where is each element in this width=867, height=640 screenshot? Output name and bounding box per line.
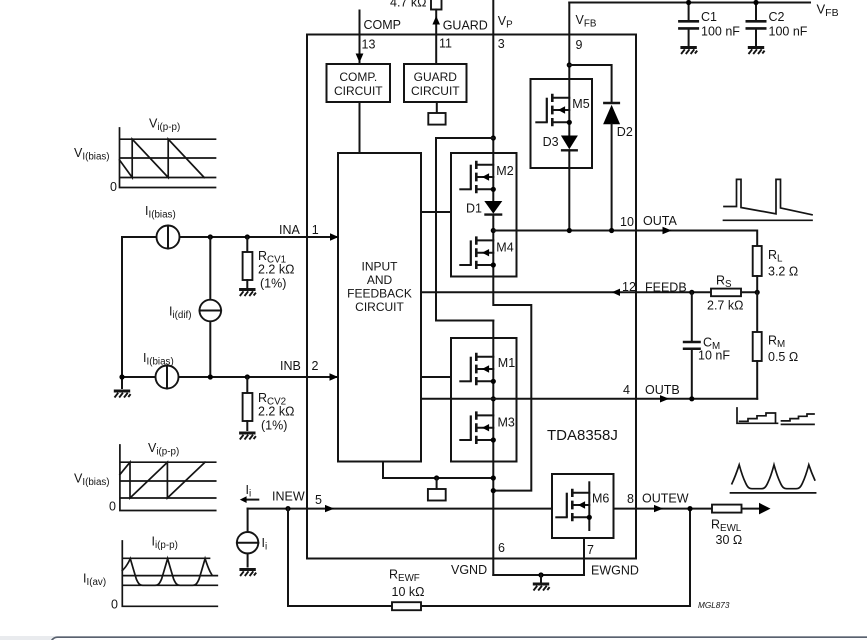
transistor M6 [556, 489, 609, 522]
resistor RS 2.7 kOhm [707, 274, 743, 313]
current source II(bias) upper [145, 204, 180, 249]
node INA junction to RCV1 [245, 234, 250, 239]
wire D1 to M4 and down to jog [493, 215, 531, 491]
svg-text:OUTEW: OUTEW [642, 492, 689, 506]
wire FEEDB row pin 12 [421, 291, 757, 293]
svg-text:0: 0 [110, 180, 117, 194]
ground below C1 [680, 48, 697, 55]
svg-text:9: 9 [576, 38, 583, 52]
svg-text:2.2 kΩ: 2.2 kΩ [258, 263, 294, 277]
wire OUTEW row pin 8 [614, 508, 760, 510]
capacitor CM 10 nF [683, 292, 731, 399]
svg-text:0.5 Ω: 0.5 Ω [768, 350, 798, 364]
ground VGND/EWGND [533, 584, 550, 591]
node junction jog return [491, 488, 496, 493]
svg-text:0: 0 [111, 598, 118, 612]
arrow up to guard resistor [432, 16, 440, 25]
node ground junction [538, 572, 543, 577]
browser UI strip bottom [0, 636, 867, 640]
wire D2 anode down to OUTA node [611, 124, 613, 230]
node Vp junction [491, 135, 496, 140]
wire M1 rail down to VGND [492, 321, 494, 576]
node D2 rail junction [609, 228, 614, 233]
svg-text:M4: M4 [496, 241, 513, 255]
block M2/D1/M4 sub-box [451, 153, 517, 277]
arrow pin 8 [654, 505, 663, 512]
waveform graph Vi falling sawtooth (INA) [74, 117, 216, 195]
resistor RL 3.2 Ohm [753, 246, 799, 292]
svg-text:12: 12 [622, 280, 636, 294]
block M5/D3 sub-box [531, 79, 593, 168]
wire INEW row pin 5 to M6 box [248, 508, 552, 510]
svg-text:MGL873: MGL873 [698, 601, 730, 610]
svg-text:10 kΩ: 10 kΩ [392, 585, 425, 599]
waveform OUTEW east-west parabola [731, 465, 816, 493]
wire pad stub [436, 478, 438, 489]
node OUTEW junction to REWF [687, 506, 692, 511]
svg-text:M6: M6 [592, 492, 609, 506]
IC outline TDA8358J [307, 35, 636, 559]
svg-text:100 nF: 100 nF [701, 25, 740, 39]
svg-text:CIRCUIT: CIRCUIT [355, 300, 404, 314]
wire INA row pin 1 [122, 236, 338, 238]
node OUTB junction on rail [491, 396, 496, 401]
wire OUTB row pin 4 [421, 398, 757, 400]
svg-text:FEEDBACK: FEEDBACK [347, 287, 412, 301]
wire Vp rail pin 3 down to M2 and D1 [492, 0, 494, 201]
current source Ii(dif) [169, 300, 221, 322]
svg-text:5: 5 [315, 493, 322, 507]
block COMP. CIRCUIT [327, 64, 391, 102]
wire COMP pin 13 vertical [359, 11, 361, 65]
block INPUT AND FEEDBACK CIRCUIT [338, 153, 421, 462]
current source Ii [237, 532, 267, 553]
node INEW junction to REWF [285, 506, 290, 511]
svg-text:2.7 kΩ: 2.7 kΩ [707, 299, 743, 313]
resistor REWL 30 Ohm [711, 505, 742, 547]
svg-text:11: 11 [439, 37, 452, 51]
capacitor C2 100 nF [746, 3, 808, 46]
svg-text:10: 10 [620, 215, 634, 229]
svg-text:3.2 Ω: 3.2 Ω [768, 265, 798, 279]
arrow pin 4 [660, 395, 669, 402]
svg-text:TDA8358J: TDA8358J [547, 427, 618, 444]
block GUARD CIRCUIT [404, 64, 467, 102]
svg-text:FEEDB: FEEDB [645, 281, 687, 295]
svg-text:1: 1 [312, 223, 319, 237]
svg-text:COMP.: COMP. [339, 70, 377, 84]
svg-text:3: 3 [498, 37, 505, 51]
capacitor C1 100 nF [678, 3, 740, 46]
wire INB row pin 2 [122, 376, 338, 378]
svg-text:M5: M5 [572, 97, 589, 111]
wire branch to D2 [569, 65, 611, 103]
wire Ii source branch [247, 509, 249, 533]
svg-text:INA: INA [279, 223, 301, 237]
waveform graph Vi rising sawtooth (INB) [74, 441, 216, 514]
svg-text:INB: INB [280, 359, 301, 373]
current arrow Ii [240, 483, 258, 503]
svg-text:OUTA: OUTA [643, 214, 677, 228]
resistor RCV1 2.2 kOhm 1% [243, 237, 295, 291]
wire pin 7 from M6 box [583, 538, 585, 575]
node Ii(dif) bottom junction [208, 374, 213, 379]
node CM top junction [689, 290, 694, 295]
transistor M4 [460, 236, 513, 269]
svg-text:C2: C2 [769, 10, 785, 24]
svg-text:D2: D2 [617, 125, 633, 139]
svg-text:100 nF: 100 nF [769, 25, 808, 39]
wire VFB top line to decoupling caps [569, 2, 810, 4]
svg-text:8: 8 [627, 492, 634, 506]
ground below Ii [239, 570, 256, 577]
wire ground stub [540, 575, 542, 582]
wire bottom node of input block [383, 462, 493, 479]
node INA junction to Ii(dif) [208, 234, 213, 239]
arrow pin 2 [330, 373, 339, 380]
diode D3 [543, 135, 578, 150]
svg-text:VGND: VGND [451, 563, 487, 577]
svg-text:AND: AND [367, 273, 393, 287]
svg-text:(1%): (1%) [261, 419, 287, 433]
svg-text:10 nF: 10 nF [698, 349, 730, 363]
svg-text:INPUT: INPUT [362, 260, 399, 274]
arrow into COMP circuit [356, 54, 364, 63]
svg-text:4.7 kΩ: 4.7 kΩ [390, 0, 426, 10]
pad symbol below guard circuit [428, 113, 445, 125]
svg-text:4: 4 [623, 383, 630, 397]
node left rail junction [119, 374, 124, 379]
transistor M1 [460, 353, 515, 386]
svg-text:EWGND: EWGND [591, 564, 639, 578]
arrow pin 10 [663, 227, 672, 235]
svg-text:0: 0 [109, 500, 116, 514]
node RCV2 junction [245, 374, 250, 379]
svg-text:13: 13 [362, 37, 376, 51]
waveform OUTA flyback pulses [724, 179, 813, 220]
svg-text:GUARD: GUARD [443, 19, 488, 33]
wire OUTA row pin 10 [493, 231, 757, 247]
arrow output to deflection coil [759, 503, 771, 515]
block M6 sub-box [552, 474, 614, 538]
svg-text:2.2 kΩ: 2.2 kΩ [258, 405, 294, 419]
arrow pin 5 [325, 505, 334, 512]
svg-text:INEW: INEW [272, 490, 305, 504]
node C1 junction [686, 0, 691, 5]
wire REWF loop [288, 509, 690, 606]
svg-text:2: 2 [312, 359, 319, 373]
resistor RCV2 2.2 kOhm 1% [243, 377, 295, 433]
svg-text:7: 7 [587, 543, 594, 557]
svg-text:CIRCUIT: CIRCUIT [334, 84, 383, 98]
svg-text:C1: C1 [701, 10, 717, 24]
node RS/RL/RM junction [755, 290, 760, 295]
current source II(bias) lower [143, 351, 179, 389]
resistor REWF 10 kOhm [389, 568, 424, 611]
node VFB/M5 junction [567, 62, 572, 67]
svg-text:CIRCUIT: CIRCUIT [411, 84, 460, 98]
svg-text:D1: D1 [466, 202, 482, 216]
node D3 rail junction [567, 228, 572, 233]
svg-text:M3: M3 [498, 416, 515, 430]
ground below C2 [748, 48, 765, 55]
wire guard circuit to pad [436, 102, 438, 113]
diode D2 [603, 103, 633, 139]
svg-text:COMP: COMP [364, 18, 402, 32]
svg-text:D3: D3 [543, 135, 559, 149]
block M1/M3 sub-box [451, 338, 517, 462]
diode D1 [466, 201, 502, 216]
arrow pin 12 [612, 289, 620, 296]
node OUTA junction on rail [491, 228, 496, 233]
arrow pin 1 [330, 233, 339, 240]
wire Ii source to ground [247, 553, 249, 566]
wire left rail down to ground [121, 237, 123, 388]
wire M6 rail [588, 482, 590, 530]
svg-text:GUARD: GUARD [414, 70, 458, 84]
node junction rail [491, 475, 496, 480]
transistor M5 [536, 94, 589, 127]
svg-text:6: 6 [498, 541, 505, 555]
node CM bottom junction [689, 396, 694, 401]
wire Ii(dif) branch [209, 237, 211, 377]
resistor 4.7 kOhm (guard pull-up, cropped at top) [390, 0, 442, 10]
ground left rail [114, 391, 131, 398]
wire Vp feed to M1 drain [436, 138, 493, 321]
node junction pad stub [434, 475, 439, 480]
wire GUARD pin 11 vertical [435, 10, 437, 65]
transistor M3 [460, 411, 515, 444]
waveform graph Ii parabolic current (INEW) [83, 535, 217, 612]
wire input block to M1/M3 box [421, 376, 451, 378]
svg-text:30 Ω: 30 Ω [716, 533, 743, 547]
wire COMP circuit to input block [359, 102, 361, 153]
wire input block to M2/M4 box [421, 211, 451, 213]
pad symbol bottom [428, 489, 446, 501]
wire D3 cathode down to OUTA node [568, 150, 570, 230]
waveform OUTB stepped ramps [737, 408, 814, 424]
svg-text:M1: M1 [498, 356, 515, 370]
svg-text:M2: M2 [496, 164, 513, 178]
wire VGND to EWGND row [493, 574, 584, 576]
wire VFB rail down through M5 to D3 [568, 3, 570, 136]
resistor RM 0.5 Ohm [753, 292, 799, 399]
ground below RCV2 [239, 433, 256, 440]
svg-text:(1%): (1%) [260, 277, 286, 291]
node C2 junction [753, 0, 758, 5]
ground below RCV1 [239, 290, 256, 297]
svg-text:OUTB: OUTB [645, 383, 680, 397]
transistor M2 [460, 161, 513, 194]
